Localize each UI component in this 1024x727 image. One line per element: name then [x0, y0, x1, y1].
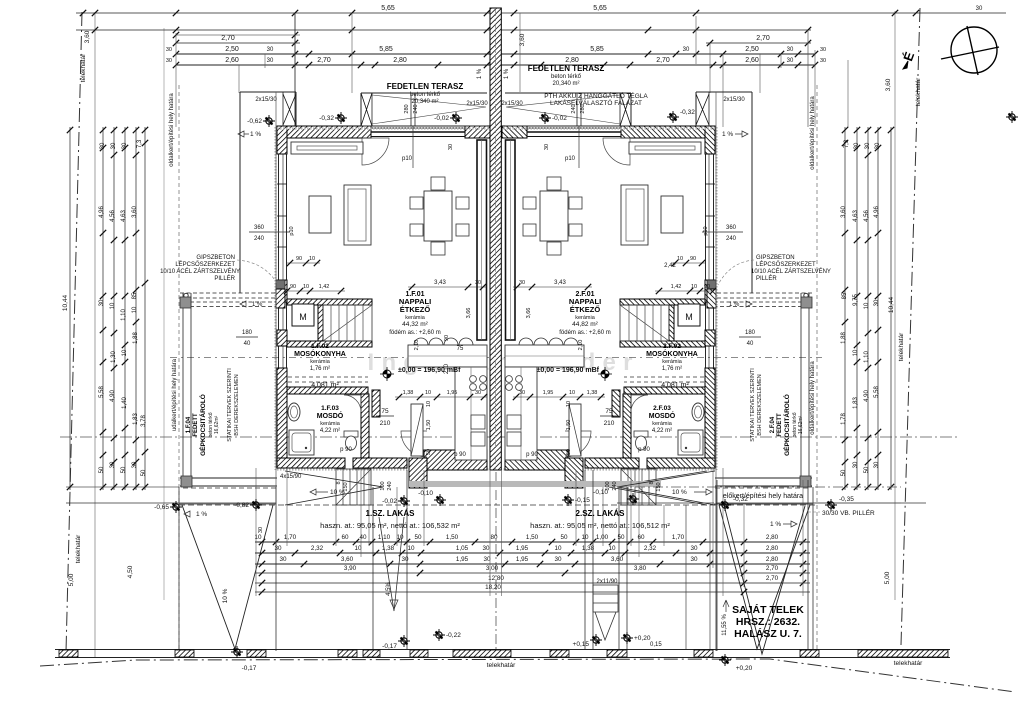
- svg-text:20,340 m²: 20,340 m²: [411, 99, 438, 105]
- svg-text:240: 240: [413, 104, 419, 113]
- svg-text:1,42: 1,42: [671, 284, 682, 290]
- svg-text:-0,17: -0,17: [242, 665, 257, 672]
- svg-text:10: 10: [853, 349, 859, 356]
- terrace X brace: [361, 93, 372, 126]
- svg-text:-0,22: -0,22: [446, 632, 461, 639]
- svg-text:ÉTKEZŐ: ÉTKEZŐ: [570, 305, 601, 314]
- wall mosdo right: [361, 394, 369, 458]
- svg-text:10: 10: [554, 545, 562, 552]
- svg-text:10: 10: [566, 401, 572, 407]
- svg-text:50: 50: [617, 534, 625, 541]
- svg-text:2,80: 2,80: [393, 57, 407, 64]
- svg-text:GÉPKOCSITÁROLÓ: GÉPKOCSITÁROLÓ: [198, 394, 207, 456]
- svg-text:30: 30: [279, 556, 287, 563]
- svg-text:1,10: 1,10: [864, 351, 870, 363]
- svg-text:10: 10: [677, 256, 683, 262]
- oldalkert line right (side building limit): [816, 85, 818, 652]
- svg-text:180: 180: [242, 330, 253, 336]
- sink: [471, 415, 485, 429]
- svg-text:oldalkert/építési hely határa: oldalkert/építési hely határa: [810, 96, 816, 170]
- svg-text:1.SZ. LAKÁS: 1.SZ. LAKÁS: [366, 509, 416, 518]
- svg-text:2,80: 2,80: [766, 545, 779, 552]
- svg-text:M: M: [299, 312, 307, 322]
- top dimension row 2: [176, 42, 300, 44]
- gray paving band at entries: [409, 481, 661, 487]
- svg-text:1,88: 1,88: [133, 332, 139, 344]
- svg-text:4,22 m²: 4,22 m²: [652, 428, 672, 434]
- svg-text:10: 10: [864, 302, 870, 309]
- carport roof dashes left: [183, 487, 277, 489]
- svg-text:LAKÁSELVÁLASZTÓ FALAZAT: LAKÁSELVÁLASZTÓ FALAZAT: [550, 98, 642, 107]
- svg-text:30: 30: [122, 142, 128, 149]
- svg-text:2x15/30: 2x15/30: [255, 97, 277, 103]
- svg-text:16,62m²: 16,62m²: [798, 415, 804, 434]
- svg-text:50: 50: [560, 534, 568, 541]
- walkway strip: [372, 487, 374, 650]
- svg-text:1,83: 1,83: [853, 397, 859, 409]
- terrace post: [410, 93, 412, 126]
- svg-text:födém as.: +2,60 m: födém as.: +2,60 m: [559, 330, 611, 336]
- svg-text:-0,15: -0,15: [575, 497, 590, 504]
- svg-text:p 90: p 90: [340, 447, 352, 453]
- svg-text:+0,20: +0,20: [634, 635, 651, 642]
- wall top near center: [465, 126, 490, 138]
- level markers top: [263, 115, 275, 127]
- kitchen counter tall: [455, 367, 487, 460]
- svg-text:10: 10: [110, 302, 116, 309]
- svg-text:GIPSZBETON: GIPSZBETON: [196, 255, 235, 261]
- svg-text:1,38: 1,38: [587, 390, 598, 396]
- property boundary right (telekhatar): [901, 8, 920, 645]
- svg-text:1,05: 1,05: [456, 545, 469, 552]
- beam end circle: [184, 293, 188, 297]
- svg-text:1 %: 1 %: [250, 131, 261, 138]
- oldalkert line left (side building limit): [178, 85, 180, 652]
- svg-text:3,60: 3,60: [611, 556, 624, 563]
- svg-text:30: 30: [258, 527, 264, 533]
- svg-text:2x11/90: 2x11/90: [597, 579, 619, 585]
- side stairs 4x15/90: [336, 469, 371, 505]
- wall left upper: [277, 126, 287, 154]
- wall over stairs: [287, 299, 372, 305]
- right driveway V: [716, 480, 718, 651]
- svg-text:4,96: 4,96: [99, 206, 105, 218]
- svg-text:1,95: 1,95: [543, 390, 554, 396]
- left dimension columns: [102, 127, 104, 490]
- svg-text:280: 280: [404, 104, 410, 113]
- level markers bottom: [398, 635, 410, 647]
- svg-text:3,00: 3,00: [486, 565, 499, 572]
- svg-text:telekhatár: telekhatár: [75, 534, 82, 563]
- insulation dotted strip bottom wall: [277, 468, 490, 470]
- svg-text:+0,20: +0,20: [736, 665, 753, 672]
- svg-text:telekhatár: telekhatár: [898, 332, 905, 361]
- svg-text:18,20: 18,20: [485, 584, 501, 591]
- svg-text:1 %: 1 %: [196, 511, 207, 518]
- svg-text:10: 10: [309, 256, 315, 262]
- svg-text:4,50: 4,50: [127, 565, 134, 578]
- front building limit dashed (elokert): [179, 504, 817, 506]
- svg-text:1 %: 1 %: [504, 68, 510, 79]
- dining table: [424, 191, 452, 241]
- svg-text:1,76 m²: 1,76 m²: [310, 366, 330, 372]
- svg-text:50: 50: [121, 466, 127, 473]
- svg-text:2x15/30: 2x15/30: [466, 101, 488, 107]
- svg-text:1,70: 1,70: [672, 534, 685, 541]
- svg-text:210: 210: [380, 420, 391, 427]
- svg-text:100: 100: [380, 481, 386, 490]
- wall left lower: [277, 368, 287, 458]
- svg-text:STATIKAI TERVEK SZERINTI: STATIKAI TERVEK SZERINTI: [750, 368, 756, 442]
- svg-text:1,50: 1,50: [426, 420, 432, 431]
- top dimension row 1: [76, 29, 811, 31]
- svg-text:12,80: 12,80: [488, 575, 504, 582]
- svg-text:30: 30: [854, 142, 860, 149]
- svg-text:2,32: 2,32: [644, 545, 657, 552]
- svg-text:240: 240: [726, 236, 737, 242]
- svg-text:16,62m²: 16,62m²: [214, 415, 220, 434]
- bottom extension verticals: [255, 468, 257, 596]
- svg-text:telekhatár: telekhatár: [894, 660, 923, 667]
- carport beams (dashed): [180, 292, 277, 294]
- svg-text:30: 30: [853, 461, 859, 468]
- svg-text:2,80: 2,80: [766, 534, 779, 541]
- svg-text:1,95: 1,95: [516, 545, 529, 552]
- svg-text:10: 10: [254, 534, 262, 541]
- svg-text:10/10 ACÉL ZÁRTSZELVÉNY: 10/10 ACÉL ZÁRTSZELVÉNY: [160, 268, 240, 275]
- svg-text:11,55 %: 11,55 %: [722, 614, 728, 636]
- wall left mid: [277, 280, 287, 302]
- svg-text:2,70: 2,70: [766, 575, 779, 582]
- svg-text:7,3: 7,3: [844, 139, 850, 148]
- svg-text:2x15/30: 2x15/30: [501, 101, 523, 107]
- svg-text:60: 60: [341, 534, 349, 541]
- svg-text:360: 360: [726, 225, 737, 231]
- svg-text:50: 50: [414, 534, 422, 541]
- svg-text:30: 30: [865, 142, 871, 149]
- svg-text:1,76 m²: 1,76 m²: [662, 366, 682, 372]
- svg-text:3,90: 3,90: [344, 565, 357, 572]
- svg-text:40: 40: [244, 341, 251, 347]
- svg-text:75: 75: [457, 346, 464, 352]
- svg-text:50: 50: [141, 469, 147, 476]
- dining chairs: [410, 197, 423, 209]
- svg-text:60: 60: [637, 534, 645, 541]
- svg-text:3,43: 3,43: [554, 280, 566, 286]
- svg-text:1,50: 1,50: [566, 420, 572, 431]
- level markers at entries: [170, 501, 182, 513]
- svg-text:4,63: 4,63: [853, 210, 859, 222]
- footing baseline: [55, 649, 950, 651]
- terrace outline: [361, 92, 487, 94]
- entry door arc: [401, 431, 427, 457]
- svg-text:1,88: 1,88: [841, 332, 847, 344]
- mosdo door arc: [344, 395, 361, 412]
- svg-text:2,10: 2,10: [578, 340, 584, 351]
- svg-text:-0,35: -0,35: [839, 496, 854, 503]
- svg-text:10: 10: [132, 306, 138, 313]
- svg-text:30: 30: [132, 461, 138, 468]
- svg-text:8: 8: [649, 481, 655, 484]
- hob: [470, 376, 477, 383]
- svg-text:előkert/építési hely határa: előkert/építési hely határa: [723, 493, 803, 500]
- svg-text:75: 75: [605, 408, 613, 415]
- mosdo toilet: [344, 431, 358, 437]
- svg-text:PILLÉR: PILLÉR: [214, 275, 235, 282]
- svg-text:PILLÉR: PILLÉR: [756, 275, 777, 282]
- svg-text:ÉTKEZŐ: ÉTKEZŐ: [400, 305, 431, 314]
- driveway V: [178, 487, 180, 651]
- svg-text:1 %: 1 %: [722, 131, 733, 138]
- svg-text:30: 30: [976, 6, 983, 12]
- hall closet: [411, 404, 423, 456]
- svg-text:haszn. at.: 95,05 m², nettó at: haszn. at.: 95,05 m², nettó at.: 106,512…: [530, 521, 670, 530]
- svg-text:LÉPCSŐSZERKEZET: LÉPCSŐSZERKEZET: [756, 261, 816, 268]
- svg-text:1 %: 1 %: [252, 302, 263, 308]
- terrace slope lines: [372, 95, 486, 124]
- svg-text:50: 50: [864, 466, 870, 473]
- svg-text:10: 10: [396, 534, 404, 541]
- svg-text:30: 30: [690, 556, 698, 563]
- svg-text:30: 30: [519, 390, 525, 396]
- svg-text:1 %: 1 %: [477, 68, 483, 79]
- carport roof: [240, 91, 296, 93]
- svg-text:-0,32: -0,32: [680, 109, 695, 116]
- svg-text:50: 50: [841, 469, 847, 476]
- svg-text:44,82 m²: 44,82 m²: [572, 321, 598, 328]
- svg-text:2,70: 2,70: [756, 35, 770, 42]
- svg-text:50: 50: [566, 449, 572, 455]
- sideboard top: [291, 142, 363, 154]
- svg-text:1,10: 1,10: [378, 534, 391, 541]
- svg-text:1,00: 1,00: [596, 534, 609, 541]
- svg-text:10: 10: [303, 284, 309, 290]
- svg-text:90: 90: [296, 256, 302, 262]
- svg-text:9,75: 9,75: [853, 294, 859, 306]
- central wall axis: [495, 8, 497, 470]
- svg-text:4,081 m²: 4,081 m²: [311, 382, 339, 389]
- svg-text:90: 90: [444, 335, 450, 341]
- svg-text:±0,00 = 196,90 mBf: ±0,00 = 196,90 mBf: [537, 367, 600, 374]
- svg-text:1,95: 1,95: [456, 556, 469, 563]
- svg-text:30: 30: [554, 556, 562, 563]
- north compass: [941, 26, 999, 75]
- svg-text:10: 10: [425, 390, 431, 396]
- svg-text:50: 50: [426, 449, 432, 455]
- svg-text:10 %: 10 %: [672, 489, 687, 496]
- svg-text:4x15/90: 4x15/90: [280, 474, 302, 480]
- svg-text:240: 240: [612, 481, 618, 490]
- svg-text:2,60: 2,60: [225, 57, 239, 64]
- svg-text:5,00: 5,00: [884, 571, 891, 584]
- svg-text:FEDETT: FEDETT: [193, 413, 199, 437]
- svg-text:oldalkert/építési hely határa: oldalkert/építési hely határa: [169, 93, 175, 167]
- svg-text:90: 90: [290, 284, 296, 290]
- svg-text:2,80: 2,80: [766, 556, 779, 563]
- coffee table: [309, 196, 331, 233]
- right narrow strip: [685, 505, 687, 650]
- svg-text:1,38: 1,38: [403, 390, 414, 396]
- wardrobe along central wall: [477, 140, 487, 340]
- svg-text:30: 30: [267, 58, 274, 64]
- svg-text:2,70: 2,70: [221, 35, 235, 42]
- svg-text:p10: p10: [565, 156, 576, 162]
- svg-text:75: 75: [381, 408, 389, 415]
- svg-text:födém as.: +2,60 m: födém as.: +2,60 m: [389, 330, 441, 336]
- svg-text:BSH DEREKSZELEMEN: BSH DEREKSZELEMEN: [234, 374, 240, 435]
- washing machine: [292, 304, 314, 326]
- svg-text:3,60: 3,60: [84, 30, 91, 43]
- svg-text:2.F.04: 2.F.04: [770, 416, 776, 433]
- svg-text:oldalkert/építési hely határa: oldalkert/építési hely határa: [810, 361, 816, 435]
- svg-text:p10: p10: [289, 226, 295, 235]
- svg-text:5,00: 5,00: [68, 573, 75, 586]
- svg-text:p 90: p 90: [454, 452, 466, 458]
- svg-text:30: 30: [274, 545, 282, 552]
- steel corner column: [276, 280, 285, 289]
- wall hall stub: [372, 390, 380, 417]
- svg-text:-0,82: -0,82: [234, 502, 249, 509]
- svg-text:10: 10: [581, 534, 589, 541]
- svg-text:3,66: 3,66: [526, 308, 532, 319]
- svg-text:150: 150: [656, 482, 662, 491]
- svg-text:-0,02: -0,02: [434, 115, 449, 122]
- footing piers: [59, 650, 78, 657]
- svg-text:30: 30: [683, 47, 690, 53]
- svg-text:3,60: 3,60: [841, 206, 847, 218]
- svg-text:90: 90: [690, 256, 696, 262]
- horizontal dashed section line: [170, 357, 822, 359]
- svg-text:3,43: 3,43: [434, 280, 446, 286]
- svg-text:30: 30: [544, 144, 550, 150]
- window top wall: [371, 127, 465, 129]
- carport slope wedge: [285, 471, 383, 505]
- svg-text:beton térkő: beton térkő: [551, 74, 582, 80]
- kitchen bar stools: [414, 338, 473, 345]
- svg-text:30: 30: [110, 461, 116, 468]
- svg-text:HRSZ.: 2632.: HRSZ.: 2632.: [736, 616, 800, 628]
- top dimension row 3: [176, 53, 815, 55]
- insulation dotted strip top wall: [277, 127, 490, 129]
- svg-text:30: 30: [874, 299, 880, 306]
- mosokonyha dashed counter: [288, 376, 368, 378]
- svg-text:30/30 VB. PILLÉR: 30/30 VB. PILLÉR: [822, 508, 875, 517]
- svg-text:p 90: p 90: [638, 447, 650, 453]
- window left wall 3: [278, 346, 280, 368]
- svg-text:GÉPKOCSITÁROLÓ: GÉPKOCSITÁROLÓ: [782, 394, 791, 456]
- svg-text:5,65: 5,65: [381, 5, 395, 12]
- svg-text:30: 30: [401, 556, 409, 563]
- svg-text:GIPSZBETON: GIPSZBETON: [756, 255, 795, 261]
- svg-text:-0,62: -0,62: [247, 118, 262, 125]
- svg-text:1,50: 1,50: [446, 534, 459, 541]
- svg-text:30: 30: [787, 58, 794, 64]
- svg-text:1,83: 1,83: [133, 413, 139, 425]
- staircase: [323, 305, 372, 341]
- svg-text:30: 30: [787, 47, 794, 53]
- right side line to boundary: [808, 502, 901, 504]
- left field line y487: [66, 486, 179, 488]
- svg-text:-0,02: -0,02: [552, 115, 567, 122]
- svg-text:5,85: 5,85: [379, 46, 393, 53]
- svg-text:4,56: 4,56: [110, 210, 116, 222]
- top dimension row 4: [176, 64, 815, 66]
- svg-text:10,44: 10,44: [62, 294, 69, 311]
- svg-text:210: 210: [444, 363, 450, 374]
- svg-text:2,50: 2,50: [745, 46, 759, 53]
- svg-text:beton térkő: beton térkő: [410, 92, 441, 98]
- helper line left 2: [163, 28, 165, 600]
- svg-text:4,22 m²: 4,22 m²: [320, 428, 340, 434]
- svg-text:30: 30: [99, 299, 105, 306]
- svg-text:2,50: 2,50: [225, 46, 239, 53]
- svg-text:FEDETLEN TERASZ: FEDETLEN TERASZ: [528, 64, 605, 73]
- svg-text:p10: p10: [402, 156, 413, 162]
- svg-text:90: 90: [704, 284, 710, 290]
- level markers mid: [380, 367, 394, 381]
- svg-text:BSH DEREKSZELEMEN: BSH DEREKSZELEMEN: [757, 374, 763, 435]
- svg-text:85: 85: [842, 292, 848, 299]
- svg-text:2,70: 2,70: [766, 565, 779, 572]
- svg-text:2x15/30: 2x15/30: [723, 97, 745, 103]
- svg-text:30: 30: [820, 58, 826, 64]
- svg-text:30: 30: [875, 142, 881, 149]
- svg-text:10,44: 10,44: [888, 296, 895, 313]
- insulation dotted strip left wall: [274, 127, 276, 470]
- mirrored right unit: [502, 92, 926, 651]
- property boundary bottom (telekhatar): [40, 659, 1015, 692]
- svg-text:STATIKAI TERVEK SZERINTI: STATIKAI TERVEK SZERINTI: [227, 368, 233, 442]
- svg-text:30: 30: [690, 545, 698, 552]
- carport edge lines: [275, 92, 277, 505]
- svg-text:10: 10: [608, 545, 616, 552]
- bottom dimension rows: [255, 541, 810, 543]
- svg-text:5,58: 5,58: [874, 386, 880, 398]
- mosdo shower: [289, 430, 314, 455]
- wall top left: [277, 126, 371, 138]
- svg-text:1.F.03: 1.F.03: [321, 405, 339, 412]
- svg-text:udalkert/építési hely határa: udalkert/építési hely határa: [172, 358, 178, 431]
- svg-text:44,32 m²: 44,32 m²: [402, 321, 428, 328]
- svg-text:kerámia: kerámia: [310, 359, 331, 365]
- svg-text:20,340 m²: 20,340 m²: [552, 81, 579, 87]
- svg-text:M: M: [685, 312, 693, 322]
- svg-text:LÉPCSŐSZERKEZET: LÉPCSŐSZERKEZET: [175, 261, 235, 268]
- helper line left: [94, 12, 96, 658]
- svg-text:+0,15: +0,15: [573, 641, 590, 648]
- svg-text:10: 10: [122, 349, 128, 356]
- living door arc top: [362, 138, 389, 165]
- svg-text:kerámia: kerámia: [320, 421, 341, 427]
- svg-text:-0,02: -0,02: [382, 498, 397, 505]
- svg-text:3,60: 3,60: [885, 78, 892, 91]
- svg-text:4,5%: 4,5%: [386, 582, 392, 596]
- svg-text:1,70: 1,70: [284, 534, 297, 541]
- svg-text:5,85: 5,85: [590, 46, 604, 53]
- svg-text:30: 30: [100, 142, 106, 149]
- wall under stairs: [287, 341, 372, 347]
- svg-text:30: 30: [166, 47, 172, 53]
- carport roof dashes right: [715, 487, 809, 489]
- svg-text:30: 30: [820, 47, 826, 53]
- svg-text:3,60: 3,60: [132, 206, 138, 218]
- svg-text:360: 360: [254, 225, 265, 231]
- svg-text:8: 8: [336, 481, 342, 484]
- svg-text:180: 180: [745, 330, 756, 336]
- carport pier bottom: [181, 476, 192, 487]
- wall mosokonyha bottom: [287, 387, 368, 394]
- center axis dash-dot: [495, 472, 497, 655]
